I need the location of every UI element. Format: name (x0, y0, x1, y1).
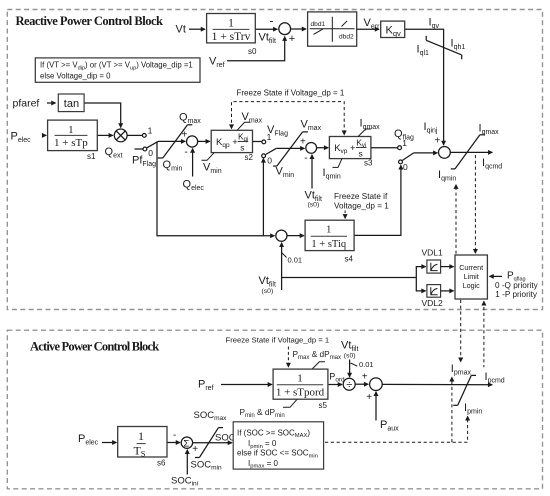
svg-text:1: 1 (68, 124, 74, 136)
svg-text:0: 0 (267, 156, 272, 166)
svg-text:1 + sTp: 1 + sTp (54, 137, 88, 149)
svg-text:Vt: Vt (176, 24, 186, 36)
svg-text:1 + sTiq: 1 + sTiq (311, 239, 346, 250)
svg-text:Freeze State if Voltage_dp = 1: Freeze State if Voltage_dp = 1 (237, 89, 345, 98)
svg-text:s: s (240, 142, 244, 152)
svg-text:s5: s5 (319, 401, 328, 410)
svg-text:0: 0 (403, 162, 408, 172)
svg-text:dbd2: dbd2 (339, 34, 354, 41)
svg-text:s3: s3 (364, 159, 373, 168)
svg-text:0 -Q priority: 0 -Q priority (495, 281, 539, 290)
svg-text:-: - (304, 153, 307, 164)
svg-text:1 + sTpord: 1 + sTpord (276, 386, 325, 398)
svg-text:pfaref: pfaref (13, 98, 40, 110)
svg-text:Σ: Σ (183, 438, 189, 449)
svg-text:Voltage_dp = 1: Voltage_dp = 1 (334, 202, 389, 211)
svg-text:+: + (435, 136, 441, 147)
svg-text:Freeze State if Voltage_dp = 1: Freeze State if Voltage_dp = 1 (226, 335, 330, 344)
svg-text:+: + (192, 444, 198, 455)
svg-text:1: 1 (326, 225, 331, 236)
svg-text:VDL2: VDL2 (422, 298, 444, 308)
svg-text:1: 1 (138, 429, 144, 443)
svg-text:0.01: 0.01 (359, 360, 374, 369)
svg-text:+: + (366, 392, 372, 403)
svg-text:+: + (182, 130, 188, 141)
svg-text:0: 0 (148, 148, 153, 158)
svg-text:1: 1 (148, 126, 153, 136)
svg-text:1 + sTrv: 1 + sTrv (212, 31, 251, 43)
svg-text:1: 1 (267, 132, 272, 142)
svg-text:VDL1: VDL1 (422, 247, 444, 257)
svg-text:1: 1 (228, 18, 234, 30)
svg-text:Active Power Control Block: Active Power Control Block (30, 340, 159, 354)
svg-text:Reactive Power Control Block: Reactive Power Control Block (16, 14, 164, 28)
svg-text:Limit: Limit (464, 272, 479, 281)
svg-text:1: 1 (402, 138, 407, 148)
svg-text:0.01: 0.01 (288, 256, 303, 265)
svg-text:+: + (362, 372, 368, 383)
svg-text:dbd1: dbd1 (311, 21, 326, 28)
svg-text:(s0): (s0) (262, 288, 274, 295)
svg-text:+: + (289, 33, 295, 45)
svg-text:-: - (184, 147, 187, 158)
svg-text:(s0): (s0) (344, 353, 356, 360)
svg-text:÷: ÷ (346, 379, 352, 391)
svg-text:+: + (300, 137, 306, 148)
svg-text:s0: s0 (248, 47, 257, 56)
svg-text:s: s (359, 148, 363, 158)
svg-text:s1: s1 (87, 152, 96, 161)
svg-text:-: - (173, 430, 176, 441)
svg-text:1: 1 (297, 372, 303, 384)
svg-text:Current: Current (459, 263, 483, 272)
svg-text:(s0): (s0) (308, 202, 320, 209)
svg-text:Freeze State if: Freeze State if (334, 192, 388, 201)
svg-text:1 -P priority: 1 -P priority (495, 290, 538, 299)
svg-text:tan: tan (64, 98, 79, 110)
svg-text:else Voltage_dip = 0: else Voltage_dip = 0 (40, 72, 111, 81)
svg-text:Logic: Logic (463, 281, 481, 290)
svg-text:s4: s4 (345, 255, 354, 264)
svg-text:s6: s6 (157, 458, 166, 467)
svg-text:s2: s2 (245, 153, 254, 162)
svg-text:-: - (270, 14, 274, 28)
